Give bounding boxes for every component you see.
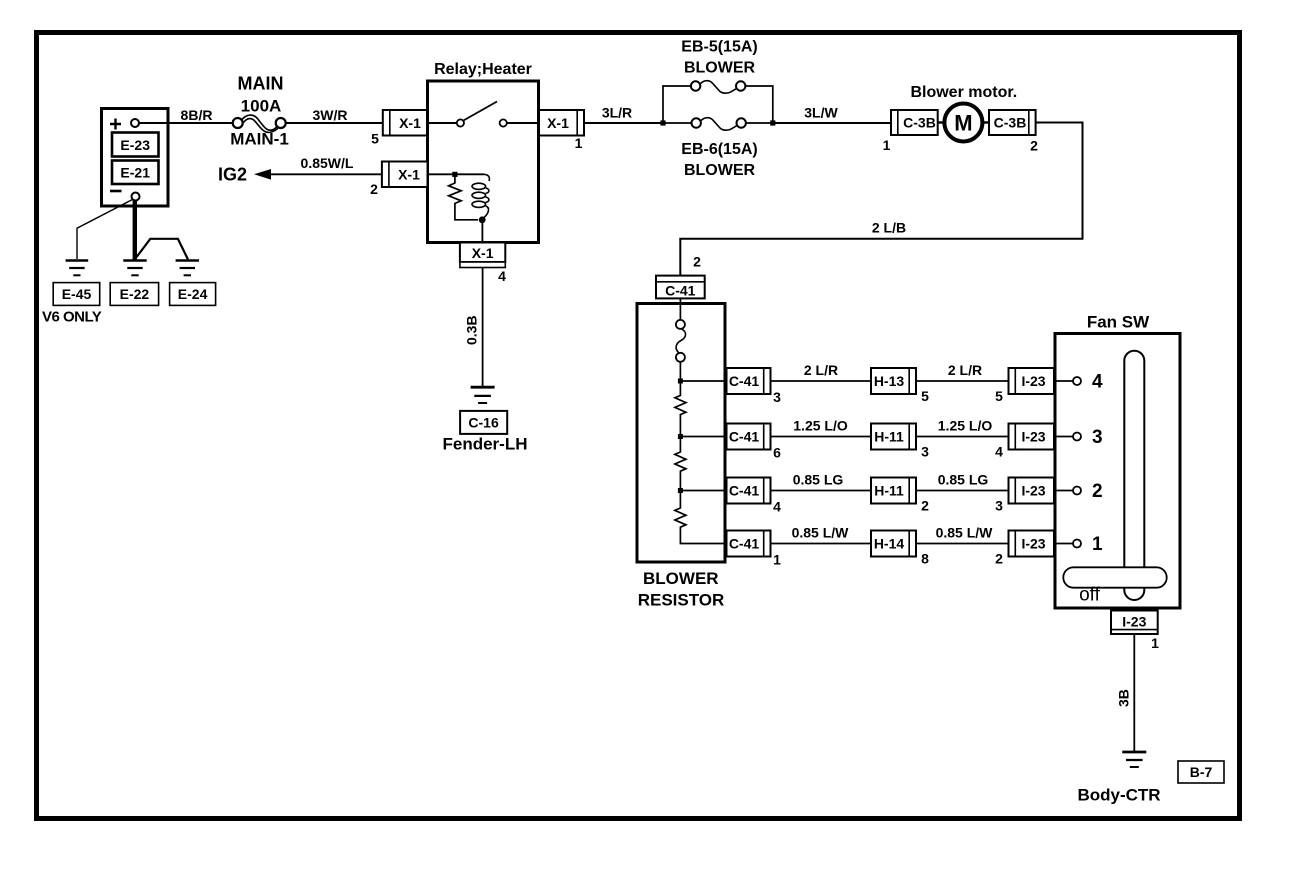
ground C-16 <box>471 387 495 403</box>
svg-text:C-41: C-41 <box>729 536 760 552</box>
svg-text:5: 5 <box>995 388 1003 404</box>
svg-text:Blower motor.: Blower motor. <box>910 84 1017 101</box>
connector E-23 <box>112 133 159 157</box>
connector C-41 pin 4 <box>727 478 782 515</box>
svg-text:0.3B: 0.3B <box>464 315 480 345</box>
svg-text:3: 3 <box>773 389 781 405</box>
svg-text:1: 1 <box>773 552 781 568</box>
svg-text:I-23: I-23 <box>1021 536 1045 552</box>
svg-text:2 L/R: 2 L/R <box>948 362 982 378</box>
fuse EB-6(15A) BLOWER <box>663 118 773 179</box>
svg-text:BLOWER: BLOWER <box>684 60 756 77</box>
svg-text:BLOWER: BLOWER <box>684 162 756 179</box>
battery plus terminal <box>110 119 139 130</box>
wire battery negative thick <box>133 200 137 260</box>
resistor R1 in blower resistor <box>675 381 686 437</box>
wire tap 2 <box>680 436 726 438</box>
connector I-23 pin 2 <box>995 531 1054 567</box>
connector C-41 pin 6 <box>727 424 782 461</box>
connector X-1 pin 1 <box>539 110 584 151</box>
svg-text:V6 ONLY: V6 ONLY <box>42 309 102 326</box>
svg-text:1: 1 <box>1151 635 1159 651</box>
svg-text:4: 4 <box>1092 372 1103 393</box>
svg-text:1: 1 <box>575 135 583 151</box>
node junction left of EB fuses <box>660 120 665 125</box>
svg-text:1.25 L/O: 1.25 L/O <box>793 418 848 434</box>
connector E-21 <box>112 161 159 185</box>
svg-text:M: M <box>954 111 972 136</box>
connector C-41 pin 3 <box>727 368 782 405</box>
wire 1.25 L/O right <box>916 436 1009 438</box>
svg-text:0.85 LG: 0.85 LG <box>793 472 844 488</box>
thermal fuse in blower resistor <box>676 298 686 381</box>
ground E-45 <box>53 261 99 306</box>
svg-text:H-11: H-11 <box>874 483 904 499</box>
connector C-3B pin 2 <box>989 110 1038 154</box>
svg-text:I-23: I-23 <box>1021 429 1045 445</box>
svg-text:X-1: X-1 <box>398 167 420 183</box>
svg-text:I-23: I-23 <box>1021 483 1045 499</box>
wire 0.85W/L to IG2 <box>254 155 382 180</box>
svg-text:0.85 L/W: 0.85 L/W <box>792 525 850 541</box>
svg-text:2: 2 <box>1030 138 1038 154</box>
battery minus terminal <box>110 191 140 201</box>
resistor R2 in blower resistor <box>675 437 686 491</box>
relay switch contact <box>428 102 540 127</box>
svg-text:X-1: X-1 <box>472 245 494 261</box>
svg-text:2: 2 <box>921 498 929 514</box>
connector I-23 pin 5 <box>995 368 1054 404</box>
fan switch knob bar <box>1063 567 1166 587</box>
fuse MAIN-1 (MAIN 100A) <box>230 74 289 149</box>
svg-text:2 L/B: 2 L/B <box>872 220 906 236</box>
relay coil <box>472 174 489 218</box>
wire tap 3 <box>680 490 726 492</box>
svg-text:0.85 LG: 0.85 LG <box>938 472 989 488</box>
wire to E-24 ground (bump) <box>137 239 188 260</box>
svg-text:off: off <box>1079 585 1101 606</box>
svg-text:8: 8 <box>921 551 929 567</box>
connector H-13 <box>871 368 929 404</box>
connector C-16 <box>460 411 507 434</box>
svg-text:3L/R: 3L/R <box>602 105 632 121</box>
fan switch contact 3 <box>1055 427 1103 448</box>
wire 3W/R <box>286 122 383 124</box>
connector X-1 pin 4 <box>460 243 506 285</box>
wire tap 1 <box>680 380 726 382</box>
svg-text:1: 1 <box>1092 534 1103 555</box>
wire 8B/R <box>139 122 233 124</box>
connector I-23 pin 3 <box>995 478 1054 514</box>
svg-text:3: 3 <box>1092 427 1103 448</box>
connector C-3B pin 1 <box>883 110 938 153</box>
svg-text:RESISTOR: RESISTOR <box>638 591 725 610</box>
svg-text:Relay;Heater: Relay;Heater <box>434 61 532 78</box>
wire 2 L/B <box>680 123 1082 276</box>
wire 0.85 L/W right <box>916 543 1009 545</box>
svg-text:H-11: H-11 <box>874 429 904 445</box>
svg-text:H-14: H-14 <box>874 536 905 552</box>
svg-text:EB-5(15A): EB-5(15A) <box>681 39 757 56</box>
svg-text:0.85 L/W: 0.85 L/W <box>936 525 994 541</box>
svg-text:E-23: E-23 <box>120 137 150 153</box>
wire to E-45 ground (thin diagonal) <box>77 200 133 260</box>
svg-text:C-3B: C-3B <box>903 115 936 131</box>
ground Body-CTR <box>1077 752 1160 805</box>
svg-text:4: 4 <box>995 444 1003 460</box>
svg-text:5: 5 <box>371 131 379 147</box>
ground E-24 <box>170 261 216 306</box>
node junction right of EB fuses <box>770 120 775 125</box>
svg-text:C-41: C-41 <box>729 429 760 445</box>
connector X-1 pin 2 <box>370 162 427 198</box>
svg-text:3L/W: 3L/W <box>804 105 838 121</box>
node junction relay coil/resistor <box>452 172 457 177</box>
wire 2 L/R left <box>771 380 872 382</box>
svg-text:4: 4 <box>773 499 781 515</box>
connector B-7 <box>1178 761 1224 783</box>
svg-text:E-21: E-21 <box>120 165 150 181</box>
svg-text:2: 2 <box>1092 481 1103 502</box>
node tap 2 <box>678 434 683 439</box>
svg-text:B-7: B-7 <box>1190 764 1213 780</box>
svg-text:MAIN: MAIN <box>238 74 284 94</box>
battery <box>102 109 169 207</box>
wire 0.85 L/W left <box>771 543 872 545</box>
svg-text:C-41: C-41 <box>665 283 696 299</box>
resistor R3 in blower resistor <box>675 491 727 544</box>
blower resistor box <box>637 304 725 610</box>
svg-text:C-16: C-16 <box>468 415 499 431</box>
wire 2 L/R right <box>916 380 1009 382</box>
connector H-11 (row 2) <box>871 424 929 460</box>
svg-text:3W/R: 3W/R <box>313 107 348 123</box>
svg-text:C-41: C-41 <box>729 373 760 389</box>
connector H-14 <box>871 531 929 567</box>
svg-text:C-41: C-41 <box>729 483 760 499</box>
svg-text:3: 3 <box>995 498 1003 514</box>
wire 3B <box>1116 634 1135 752</box>
relay Relay;Heater <box>428 61 539 243</box>
fan switch contact 1 <box>1055 534 1103 555</box>
svg-text:4: 4 <box>498 268 506 284</box>
svg-text:C-3B: C-3B <box>994 115 1027 131</box>
connector I-23 pin 4 <box>995 424 1054 460</box>
svg-text:Body-CTR: Body-CTR <box>1077 786 1160 805</box>
svg-text:5: 5 <box>921 388 929 404</box>
wire coil to X-1 pin 4 <box>481 220 483 243</box>
wire 0.85 LG left <box>771 490 872 492</box>
svg-text:0.85W/L: 0.85W/L <box>301 155 354 171</box>
node tap 3 <box>678 488 683 493</box>
wire 1.25 L/O left <box>771 436 872 438</box>
svg-text:H-13: H-13 <box>874 373 905 389</box>
svg-text:8B/R: 8B/R <box>181 107 213 123</box>
fan switch contact 2 <box>1055 481 1103 502</box>
svg-text:100A: 100A <box>241 97 282 116</box>
motor M (blower motor) <box>938 104 989 142</box>
node junction coil bottom <box>479 216 486 223</box>
svg-text:2: 2 <box>995 551 1003 567</box>
svg-text:6: 6 <box>773 445 781 461</box>
svg-text:1.25 L/O: 1.25 L/O <box>938 418 993 434</box>
connector H-11 (row 3) <box>871 478 929 514</box>
connector I-23 pin 1 (bottom) <box>1111 611 1159 652</box>
svg-text:X-1: X-1 <box>547 115 569 131</box>
wire 0.3B <box>464 268 483 388</box>
svg-text:2: 2 <box>370 181 378 197</box>
svg-text:BLOWER: BLOWER <box>643 569 719 588</box>
fuse EB-5(15A) BLOWER <box>663 39 773 124</box>
switch Fan SW box <box>1055 313 1180 609</box>
svg-text:Fan SW: Fan SW <box>1087 313 1150 332</box>
relay resistor <box>449 177 478 220</box>
fan switch slider track <box>1124 351 1144 600</box>
svg-text:3: 3 <box>921 444 929 460</box>
wire relay internal top <box>428 173 485 175</box>
svg-text:Fender-LH: Fender-LH <box>443 435 528 454</box>
connector X-1 pin 5 <box>371 110 427 147</box>
svg-text:IG2: IG2 <box>218 165 247 185</box>
svg-text:X-1: X-1 <box>399 115 421 131</box>
connector C-41 pin 2 (top) <box>656 276 705 299</box>
connector C-41 pin 1 <box>727 531 782 568</box>
svg-text:E-22: E-22 <box>120 286 150 302</box>
svg-text:1: 1 <box>883 137 891 153</box>
svg-text:E-24: E-24 <box>178 286 208 302</box>
wire 0.85 LG right <box>916 490 1009 492</box>
svg-text:3B: 3B <box>1116 689 1132 707</box>
svg-text:I-23: I-23 <box>1021 373 1045 389</box>
fan switch contact 4 <box>1055 372 1103 393</box>
svg-text:MAIN-1: MAIN-1 <box>230 130 289 149</box>
svg-text:2 L/R: 2 L/R <box>804 362 838 378</box>
node tap 1 <box>678 379 683 384</box>
ground E-22 <box>110 261 158 306</box>
svg-text:2: 2 <box>693 254 701 270</box>
svg-text:EB-6(15A): EB-6(15A) <box>681 141 757 158</box>
wire 3L/R <box>584 122 663 124</box>
svg-text:E-45: E-45 <box>62 286 92 302</box>
wire 3L/W <box>773 122 891 124</box>
svg-text:I-23: I-23 <box>1122 614 1146 630</box>
